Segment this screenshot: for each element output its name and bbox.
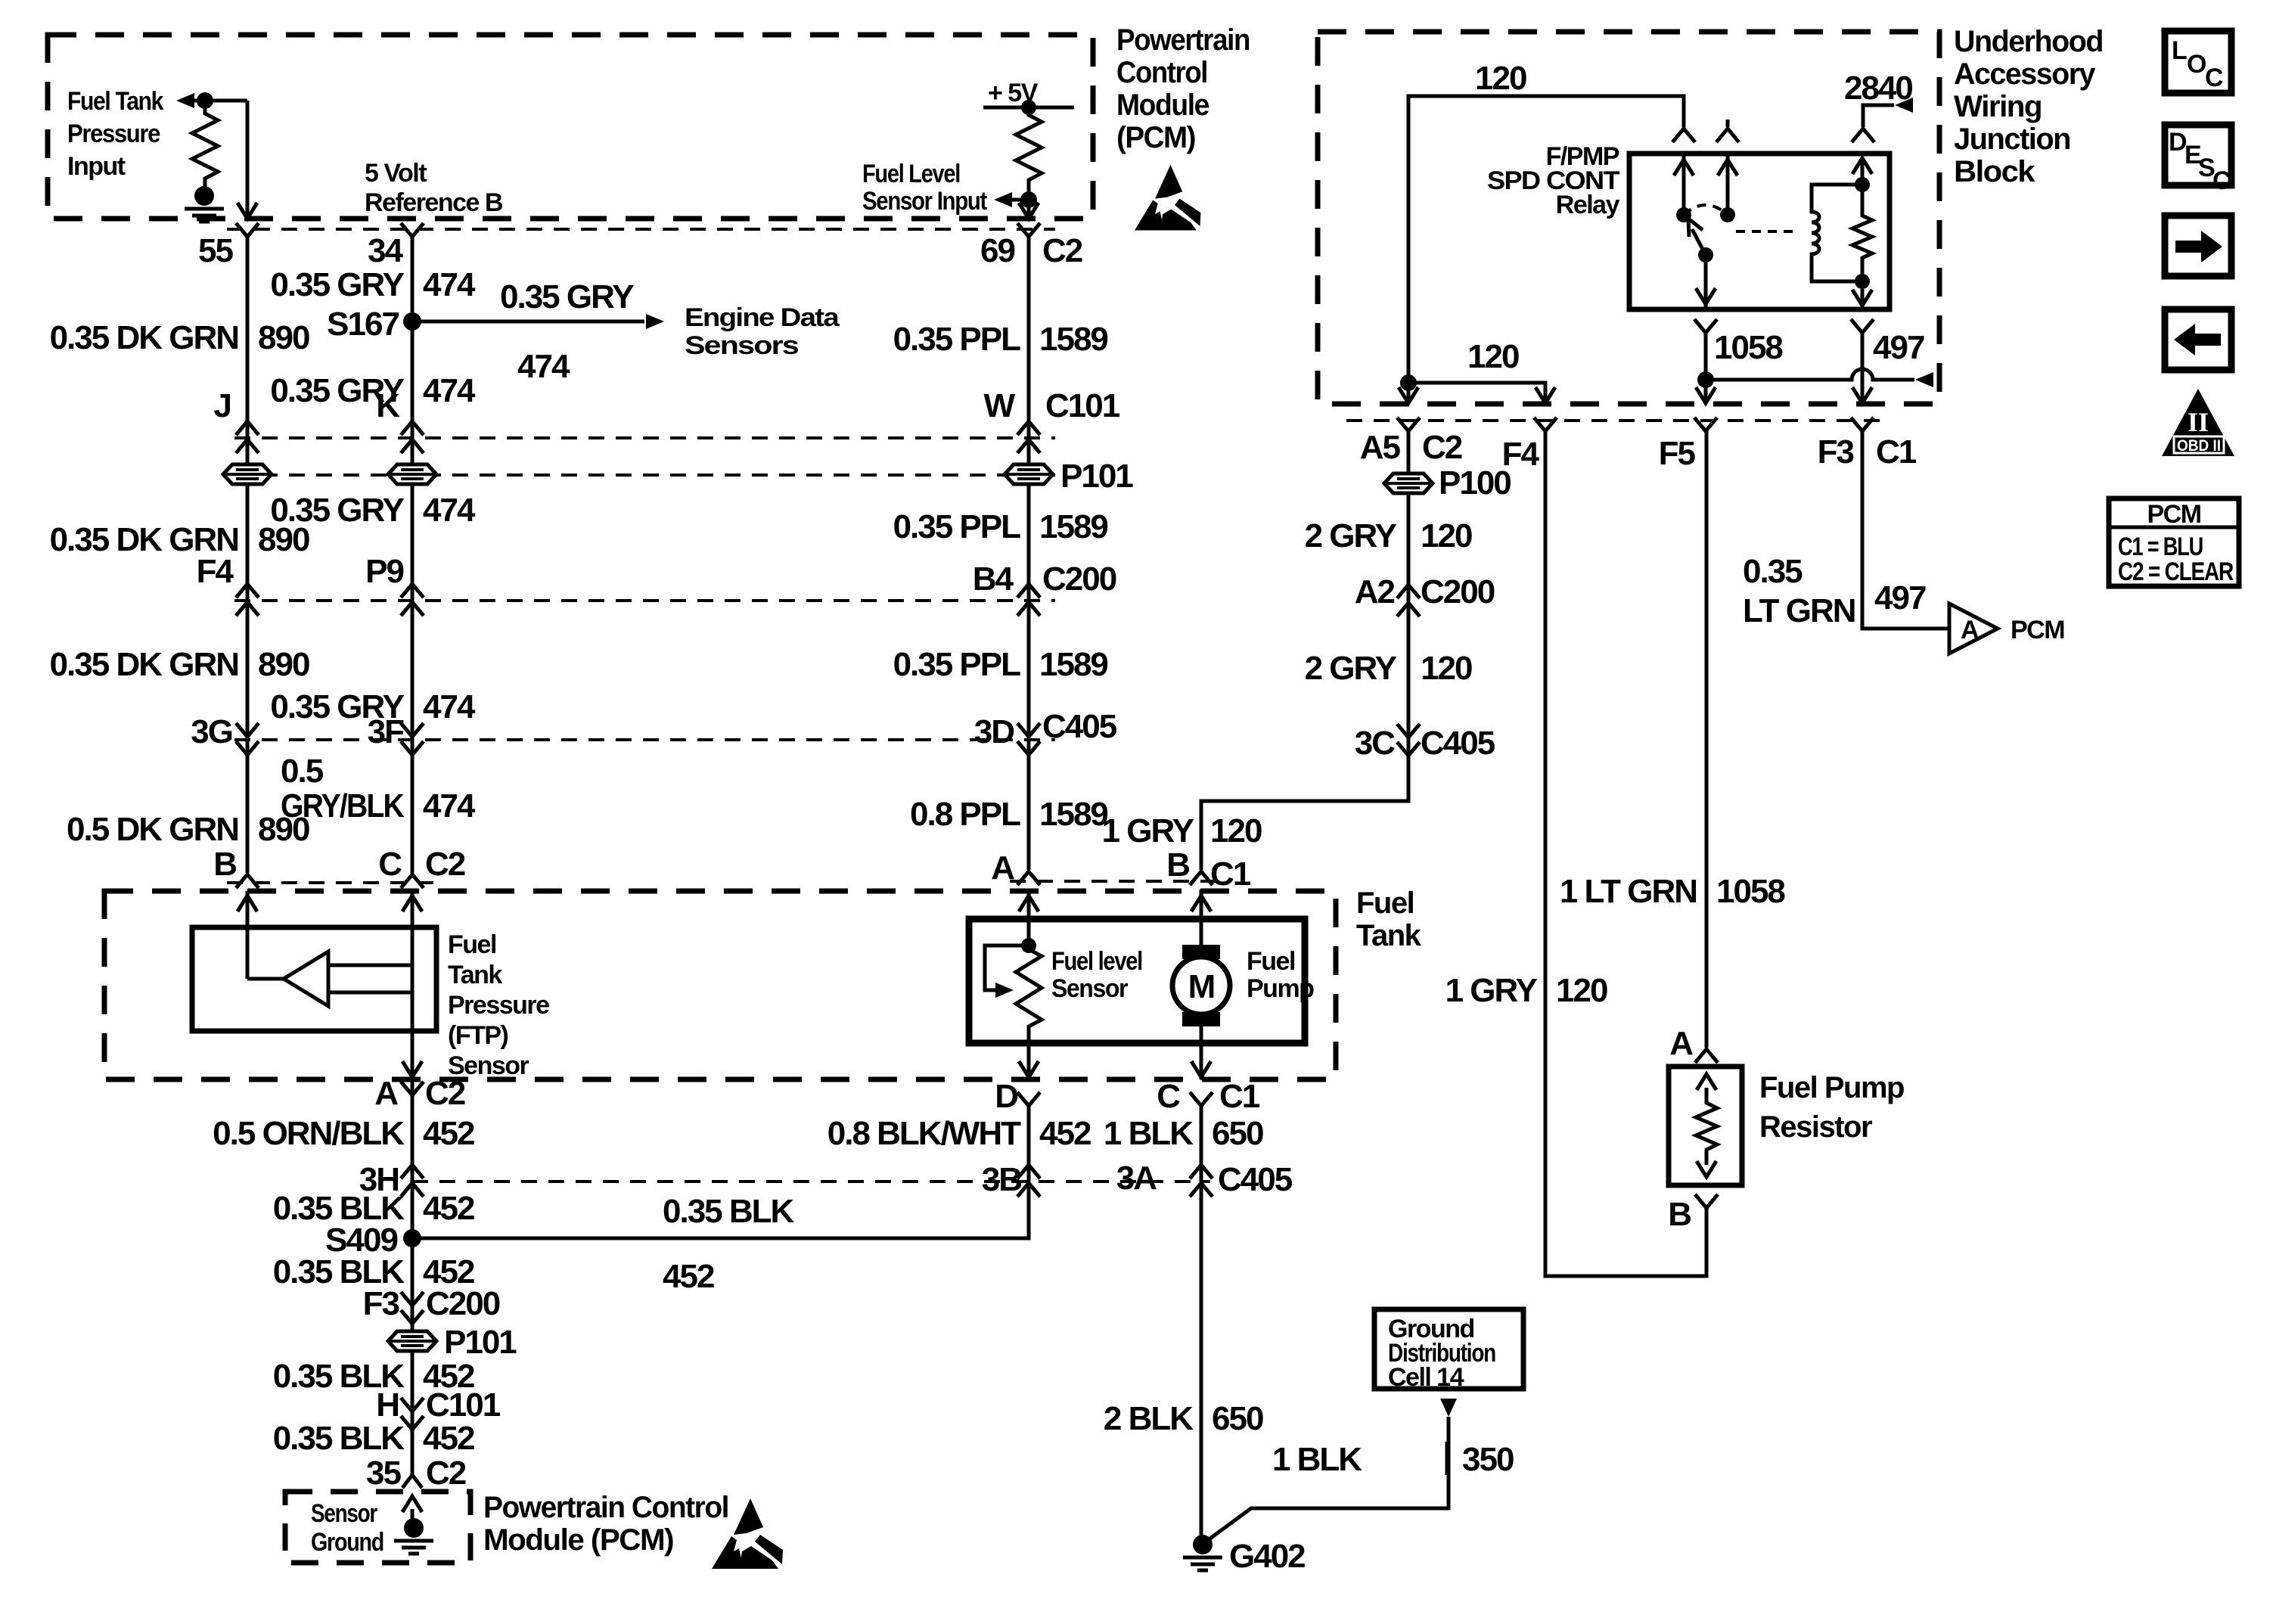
Sensor Ground dashed box: [285, 1492, 470, 1563]
svg-text:Sensor: Sensor: [1051, 974, 1128, 1003]
svg-text:Input: Input: [67, 152, 126, 181]
relay bottom pin chevrons: [1694, 319, 1874, 333]
svg-text:P101: P101: [444, 1324, 517, 1361]
PCM legend box: [2109, 498, 2239, 586]
connector F3 C200: [401, 1292, 424, 1324]
svg-text:3C: 3C: [1355, 725, 1395, 762]
svg-text:B: B: [1668, 1196, 1691, 1233]
svg-text:35: 35: [366, 1455, 401, 1492]
svg-text:C2: C2: [425, 1075, 465, 1112]
wire: 120 feed horizontal: [1408, 96, 1684, 402]
connector row C1 (A/B) above fuel tank: [1010, 880, 1222, 883]
label: Engine Data Sensors: [685, 303, 840, 360]
svg-text:C: C: [2212, 166, 2231, 195]
connector 35 C2: [402, 1475, 422, 1488]
svg-text:1589: 1589: [1039, 796, 1107, 833]
Ground Distribution Cell 14 box: [1374, 1309, 1523, 1389]
node: coil bottom dot: [1855, 274, 1870, 289]
svg-text:5 Volt: 5 Volt: [365, 159, 427, 188]
label: Fuel Pump Resistor: [1759, 1071, 1904, 1144]
svg-text:0.5: 0.5: [281, 753, 324, 790]
svg-text:Reference B: Reference B: [365, 188, 503, 217]
svg-text:1589: 1589: [1039, 321, 1107, 358]
wire: trunk x1 DK GRN 890 (327): [246, 237, 250, 873]
grommet P100: [1384, 474, 1433, 493]
label: Fuel level Sensor: [1051, 947, 1142, 1003]
resistor: fuel level pull-up (internal): [1016, 107, 1042, 200]
wire: x3 from D to S409 elbow: [412, 1106, 1029, 1238]
svg-text:120: 120: [1467, 338, 1519, 375]
svg-text:3B: 3B: [982, 1161, 1021, 1198]
Fuel Tank dashed box: [104, 891, 1336, 1079]
svg-text:P9: P9: [365, 553, 403, 590]
relay dashed contact arc: [1684, 205, 1728, 215]
pin A of fuel pump resistor: [1695, 1049, 1718, 1063]
relay contact pin mid: [1726, 154, 1730, 215]
wire: triangle tip to B wire: [247, 977, 284, 981]
svg-text:Accessory: Accessory: [1954, 57, 2096, 91]
svg-text:(PCM): (PCM): [1116, 121, 1195, 154]
svg-text:452: 452: [423, 1190, 474, 1227]
svg-text:A2: A2: [1355, 573, 1395, 610]
wire: S167 branch to engine data sensors: [412, 320, 644, 324]
svg-text:C1: C1: [1876, 433, 1917, 470]
node: coil top dot: [1855, 177, 1870, 192]
label: Sensor Ground: [311, 1499, 383, 1557]
svg-text:Powertrain Control: Powertrain Control: [483, 1491, 728, 1524]
svg-text:2 GRY: 2 GRY: [1305, 517, 1397, 554]
Underhood Accessory Wiring Junction Block dashed box: [1318, 32, 1939, 404]
svg-text:Fuel Tank: Fuel Tank: [67, 87, 163, 116]
relay top pin chevrons: [1672, 129, 1874, 142]
wire: 497 horizontal with hop: [1706, 369, 1914, 380]
svg-text:S167: S167: [327, 306, 399, 343]
svg-text:B: B: [1166, 846, 1189, 883]
svg-text:F5: F5: [1659, 435, 1696, 472]
wire: fork upper to C wire: [328, 964, 412, 967]
svg-text:P100: P100: [1439, 464, 1511, 501]
svg-text:C1: C1: [1210, 855, 1251, 893]
forward arrow box: [2165, 216, 2231, 276]
svg-text:D: D: [995, 1078, 1017, 1115]
svg-text:474: 474: [423, 492, 476, 529]
arrow: fuel level sensor input: [994, 192, 1012, 207]
svg-text:Relay: Relay: [1556, 191, 1620, 219]
svg-text:PCM: PCM: [2011, 616, 2064, 644]
svg-text:Wiring: Wiring: [1954, 90, 2042, 123]
svg-text:C200: C200: [1042, 560, 1116, 598]
triangle pointer below box: [1440, 1399, 1457, 1417]
svg-text:55: 55: [198, 232, 233, 269]
wire: F4 trunk down to resistor B: [1545, 431, 1706, 1276]
svg-text:Module (PCM): Module (PCM): [483, 1523, 673, 1557]
wire: 120 branch to F4: [1408, 383, 1545, 402]
wire: C pin into FTP box: [411, 891, 415, 1079]
relay box: [1629, 154, 1890, 309]
wire: F3 trunk down to PCM triangle: [1862, 431, 1949, 629]
svg-text:120: 120: [1421, 650, 1472, 687]
label: Powertrain Control Module (PCM) bottom: [483, 1491, 728, 1557]
svg-text:C2: C2: [1042, 232, 1082, 269]
svg-text:C101: C101: [1045, 387, 1120, 424]
svg-text:0.35 DK GRN: 0.35 DK GRN: [50, 646, 238, 683]
connector row C2 top (pins 55/34/69): [227, 228, 1055, 231]
connector row P101 grommets: [234, 474, 1055, 477]
connector 3C C405: [1397, 724, 1420, 756]
svg-text:Powertrain: Powertrain: [1116, 23, 1250, 57]
relay F/PMP SPD CONT label: [1487, 142, 1620, 219]
svg-text:1058: 1058: [1716, 873, 1785, 910]
connector row C200 (F4/P9/B4): [234, 599, 1055, 602]
UAWJB bottom connector row: [1346, 419, 1891, 422]
relay coil: [1812, 185, 1862, 281]
svg-text:120: 120: [1421, 517, 1472, 554]
resistor: fuel pump resistor: [1696, 1088, 1717, 1165]
ground G402: [1183, 1535, 1222, 1570]
svg-text:497: 497: [1873, 329, 1924, 366]
svg-text:452: 452: [423, 1420, 474, 1457]
wire: relay 87 drop to F5: [1704, 333, 1708, 402]
wire: FTP input horizontal: [193, 99, 247, 103]
ground: sensor ground: [394, 1518, 433, 1554]
pin A C2 below FTP: [401, 1082, 424, 1095]
wire: A5 trunk down to tank: [1201, 431, 1408, 870]
svg-text:474: 474: [423, 787, 476, 824]
svg-text:890: 890: [258, 811, 309, 848]
relay coil suppressor resistor: [1852, 159, 1872, 303]
node: FTP input junction dot: [197, 92, 213, 109]
svg-text:C200: C200: [426, 1285, 500, 1322]
wire: B pin into FTP box: [246, 891, 250, 979]
svg-text:1058: 1058: [1714, 329, 1783, 366]
svg-text:Tank: Tank: [1356, 919, 1422, 952]
svg-text:M: M: [1188, 968, 1215, 1005]
svg-text:C: C: [2205, 64, 2223, 92]
svg-text:C2: C2: [426, 1455, 466, 1492]
wire: x4 from C down to G402: [1200, 1106, 1203, 1536]
svg-text:452: 452: [1039, 1115, 1091, 1152]
node: fuel level sense dot: [1020, 191, 1037, 208]
wire: x2 from A C2 down to sensor ground: [411, 1079, 415, 1475]
svg-text:C405: C405: [1042, 708, 1117, 745]
svg-text:A: A: [1669, 1025, 1693, 1062]
svg-text:452: 452: [423, 1115, 474, 1152]
svg-text:C200: C200: [1421, 573, 1495, 610]
wire: trunk x2 GRY 474 (545): [411, 237, 415, 873]
svg-text:3F: 3F: [368, 713, 404, 750]
label: Fuel Tank Pressure Input: [67, 87, 163, 181]
label: Fuel Pump: [1247, 947, 1314, 1003]
svg-text:F4: F4: [197, 553, 234, 590]
fuel pump resistor box: [1669, 1067, 1742, 1185]
svg-text:Block: Block: [1954, 155, 2035, 188]
svg-text:1 LT GRN: 1 LT GRN: [1560, 873, 1697, 910]
svg-text:890: 890: [258, 646, 309, 683]
svg-text:Sensor Input: Sensor Input: [862, 187, 987, 216]
label: Underhood Accessory Wiring Junction Block: [1954, 25, 2103, 188]
svg-text:Pump: Pump: [1247, 974, 1314, 1003]
svg-text:Underhood: Underhood: [1954, 25, 2103, 58]
PCM module dashed box (top left): [48, 35, 1093, 219]
wire: fuel level sender feed: [1027, 890, 1031, 946]
connector A2 C200: [1397, 585, 1420, 616]
wire: relay 497 drop to F3: [1861, 333, 1865, 402]
svg-text:PCM: PCM: [2147, 500, 2200, 529]
connector pins D / C C1 below tank: [1017, 1092, 1213, 1106]
wire: trunk x3 PPL 1589 (1360): [1027, 237, 1031, 870]
svg-text:0.35: 0.35: [1743, 553, 1803, 590]
svg-text:Pressure: Pressure: [448, 991, 549, 1020]
svg-text:0.35 PPL: 0.35 PPL: [893, 646, 1021, 683]
svg-text:Fuel Pump: Fuel Pump: [1759, 1071, 1904, 1104]
svg-text:G402: G402: [1229, 1538, 1305, 1575]
svg-text:Ground: Ground: [311, 1528, 383, 1557]
connector row C405 (3G/3F/3D): [234, 738, 1055, 741]
svg-text:Tank: Tank: [448, 961, 502, 989]
wire: A pin out of FTP: [402, 1061, 422, 1077]
svg-text:II: II: [2188, 407, 2209, 437]
svg-text:0.35 PPL: 0.35 PPL: [893, 321, 1021, 358]
svg-text:P101: P101: [1060, 458, 1133, 495]
fuel tank inner solid box: [969, 919, 1305, 1043]
motor: fuel pump M: [1172, 945, 1230, 1026]
svg-text:120: 120: [1556, 972, 1607, 1009]
svg-text:0.35 GRY: 0.35 GRY: [270, 266, 404, 303]
wire: sender ground out: [1027, 1043, 1031, 1079]
svg-text:1 GRY: 1 GRY: [1102, 812, 1194, 849]
wire: pump feed in: [1200, 890, 1203, 945]
fuel level sender wiper loop: [985, 946, 1029, 990]
wire: 69 pin drop inside PCM: [1027, 200, 1031, 217]
node: 497 junction dot: [1697, 371, 1714, 388]
svg-text:Cell 14: Cell 14: [1388, 1363, 1464, 1392]
svg-text:C: C: [1157, 1078, 1180, 1115]
svg-text:B: B: [213, 846, 236, 883]
triangle A to PCM: [1949, 604, 1998, 654]
svg-text:L: L: [2172, 36, 2187, 65]
label: Powertrain Control Module (PCM): [1116, 23, 1250, 154]
svg-text:3G: 3G: [191, 713, 232, 750]
svg-text:2 GRY: 2 GRY: [1305, 650, 1397, 687]
label: Fuel Tank: [1356, 887, 1422, 952]
svg-text:650: 650: [1212, 1400, 1263, 1437]
DESC box: [2165, 125, 2231, 195]
svg-text:Module: Module: [1116, 88, 1209, 122]
back arrow box: [2165, 309, 2231, 370]
svg-text:Junction: Junction: [1954, 123, 2070, 156]
svg-text:H: H: [376, 1386, 399, 1424]
svg-text:2 BLK: 2 BLK: [1104, 1400, 1194, 1437]
svg-text:0.8 BLK/WHT: 0.8 BLK/WHT: [828, 1115, 1021, 1152]
svg-text:Fuel: Fuel: [448, 930, 496, 959]
svg-text:Sensor: Sensor: [311, 1499, 377, 1528]
svg-text:474: 474: [423, 688, 476, 725]
svg-text:Engine Data: Engine Data: [685, 303, 840, 332]
svg-text:1 BLK: 1 BLK: [1104, 1115, 1194, 1152]
svg-text:C405: C405: [1218, 1161, 1293, 1198]
svg-text:C2 = CLEAR: C2 = CLEAR: [2118, 557, 2234, 586]
wire: F5 trunk down to resistor A: [1705, 431, 1709, 1048]
svg-text:F3: F3: [363, 1285, 399, 1322]
svg-text:34: 34: [368, 232, 403, 269]
ESD symbol bottom: [712, 1498, 783, 1569]
relay switch arm: [1692, 229, 1706, 255]
wire: pin 55 drop from FTP input elbow: [246, 101, 250, 217]
FTP sensor amplifier triangle: [284, 952, 328, 1006]
svg-text:0.35 GRY: 0.35 GRY: [500, 278, 634, 315]
node: sender top dot: [1021, 938, 1036, 953]
svg-text:C1: C1: [1219, 1078, 1260, 1115]
svg-text:1589: 1589: [1039, 646, 1107, 683]
svg-text:1 BLK: 1 BLK: [1272, 1441, 1362, 1478]
ground: FTP internal: [185, 186, 224, 222]
svg-text:3D: 3D: [974, 713, 1014, 750]
relay dashed actuate line: [1736, 230, 1799, 233]
svg-text:0.35 BLK: 0.35 BLK: [273, 1420, 405, 1457]
svg-text:F3: F3: [1818, 433, 1854, 470]
svg-text:890: 890: [258, 319, 309, 356]
svg-text:Control: Control: [1116, 56, 1207, 89]
wire: 350 ground wire to G402: [1208, 1417, 1449, 1540]
svg-text:452: 452: [663, 1258, 714, 1295]
label: Fuel Tank Pressure (FTP) Sensor: [448, 930, 549, 1080]
svg-text:Fuel: Fuel: [1356, 887, 1414, 920]
grommet P101 lower: [388, 1331, 436, 1351]
svg-text:2840: 2840: [1844, 70, 1912, 107]
wire: fork lower to C wire: [328, 991, 412, 995]
resistor: FTP pull (internal): [192, 101, 218, 187]
svg-text:W: W: [983, 387, 1015, 424]
wire: +5V rail bar: [983, 106, 1074, 110]
svg-text:474: 474: [517, 348, 570, 385]
svg-text:0.5 DK GRN: 0.5 DK GRN: [67, 811, 238, 848]
relay contact pin left: [1682, 154, 1686, 215]
FTP sensor solid box: [192, 927, 436, 1031]
svg-text:0.5 ORN/BLK: 0.5 ORN/BLK: [213, 1115, 405, 1152]
svg-text:Resistor: Resistor: [1759, 1110, 1872, 1144]
node: 120 branch dot: [1400, 374, 1417, 391]
connector H C101: [401, 1398, 424, 1430]
svg-text:0.35 BLK: 0.35 BLK: [663, 1193, 795, 1230]
connector row C2 (B/C) above FTP sensor: [227, 881, 435, 884]
svg-text:0.35 DK GRN: 0.35 DK GRN: [50, 319, 238, 356]
label: 5 Volt Reference B: [365, 159, 503, 217]
svg-text:Sensors: Sensors: [685, 331, 799, 360]
FTP input arrow: [176, 93, 194, 108]
svg-text:69: 69: [980, 232, 1014, 269]
svg-text:120: 120: [1210, 812, 1262, 849]
LOC box: [2165, 31, 2231, 93]
arrow: sensor ground up: [411, 1509, 415, 1519]
label: Fuel Level Sensor Input: [862, 160, 987, 216]
wire: 2840 feed: [1863, 105, 1894, 127]
svg-text:B4: B4: [973, 560, 1014, 598]
svg-text:LT GRN: LT GRN: [1743, 592, 1855, 629]
svg-text:A: A: [374, 1075, 398, 1112]
svg-text:497: 497: [1874, 579, 1926, 616]
svg-text:474: 474: [423, 266, 476, 303]
OBD II triangle: [2162, 389, 2234, 456]
connector row C101 (J/K/W): [234, 436, 1055, 439]
svg-text:C405: C405: [1421, 725, 1495, 762]
svg-text:0.8 PPL: 0.8 PPL: [910, 796, 1020, 833]
ESD symbol top: [1135, 165, 1200, 230]
svg-text:1589: 1589: [1039, 508, 1107, 545]
svg-text:Fuel: Fuel: [1247, 947, 1295, 976]
svg-text:(FTP): (FTP): [448, 1021, 508, 1050]
node: +5V dot: [1021, 100, 1036, 115]
svg-text:120: 120: [1475, 60, 1526, 97]
svg-text:C2: C2: [425, 846, 465, 883]
svg-text:Fuel level: Fuel level: [1051, 947, 1142, 976]
svg-text:650: 650: [1212, 1115, 1263, 1152]
svg-text:A: A: [991, 849, 1014, 887]
svg-text:K: K: [376, 387, 400, 424]
svg-text:890: 890: [258, 521, 309, 558]
svg-text:0.35 PPL: 0.35 PPL: [893, 508, 1021, 545]
resistor: fuel level sender: [1016, 946, 1042, 1043]
svg-text:O: O: [2187, 50, 2206, 79]
svg-text:A: A: [1961, 616, 1979, 644]
svg-text:Fuel Level: Fuel Level: [862, 160, 960, 188]
svg-text:1 GRY: 1 GRY: [1445, 972, 1538, 1009]
relay switch common out: [1704, 255, 1708, 309]
wire: pump ground out: [1200, 1026, 1203, 1079]
connector row C405 (3H/3B/3A): [412, 1180, 1210, 1183]
svg-text:Pressure: Pressure: [67, 120, 160, 148]
svg-text:OBD II: OBD II: [2177, 437, 2221, 455]
svg-text:C: C: [378, 846, 402, 883]
svg-text:C2: C2: [1422, 429, 1462, 466]
svg-text:A5: A5: [1360, 429, 1401, 466]
svg-text:474: 474: [423, 372, 476, 409]
svg-text:J: J: [214, 387, 231, 424]
pin B of fuel pump resistor: [1695, 1194, 1718, 1208]
svg-text:350: 350: [1462, 1441, 1514, 1478]
svg-text:C101: C101: [426, 1386, 501, 1424]
svg-text:3A: 3A: [1116, 1160, 1157, 1197]
